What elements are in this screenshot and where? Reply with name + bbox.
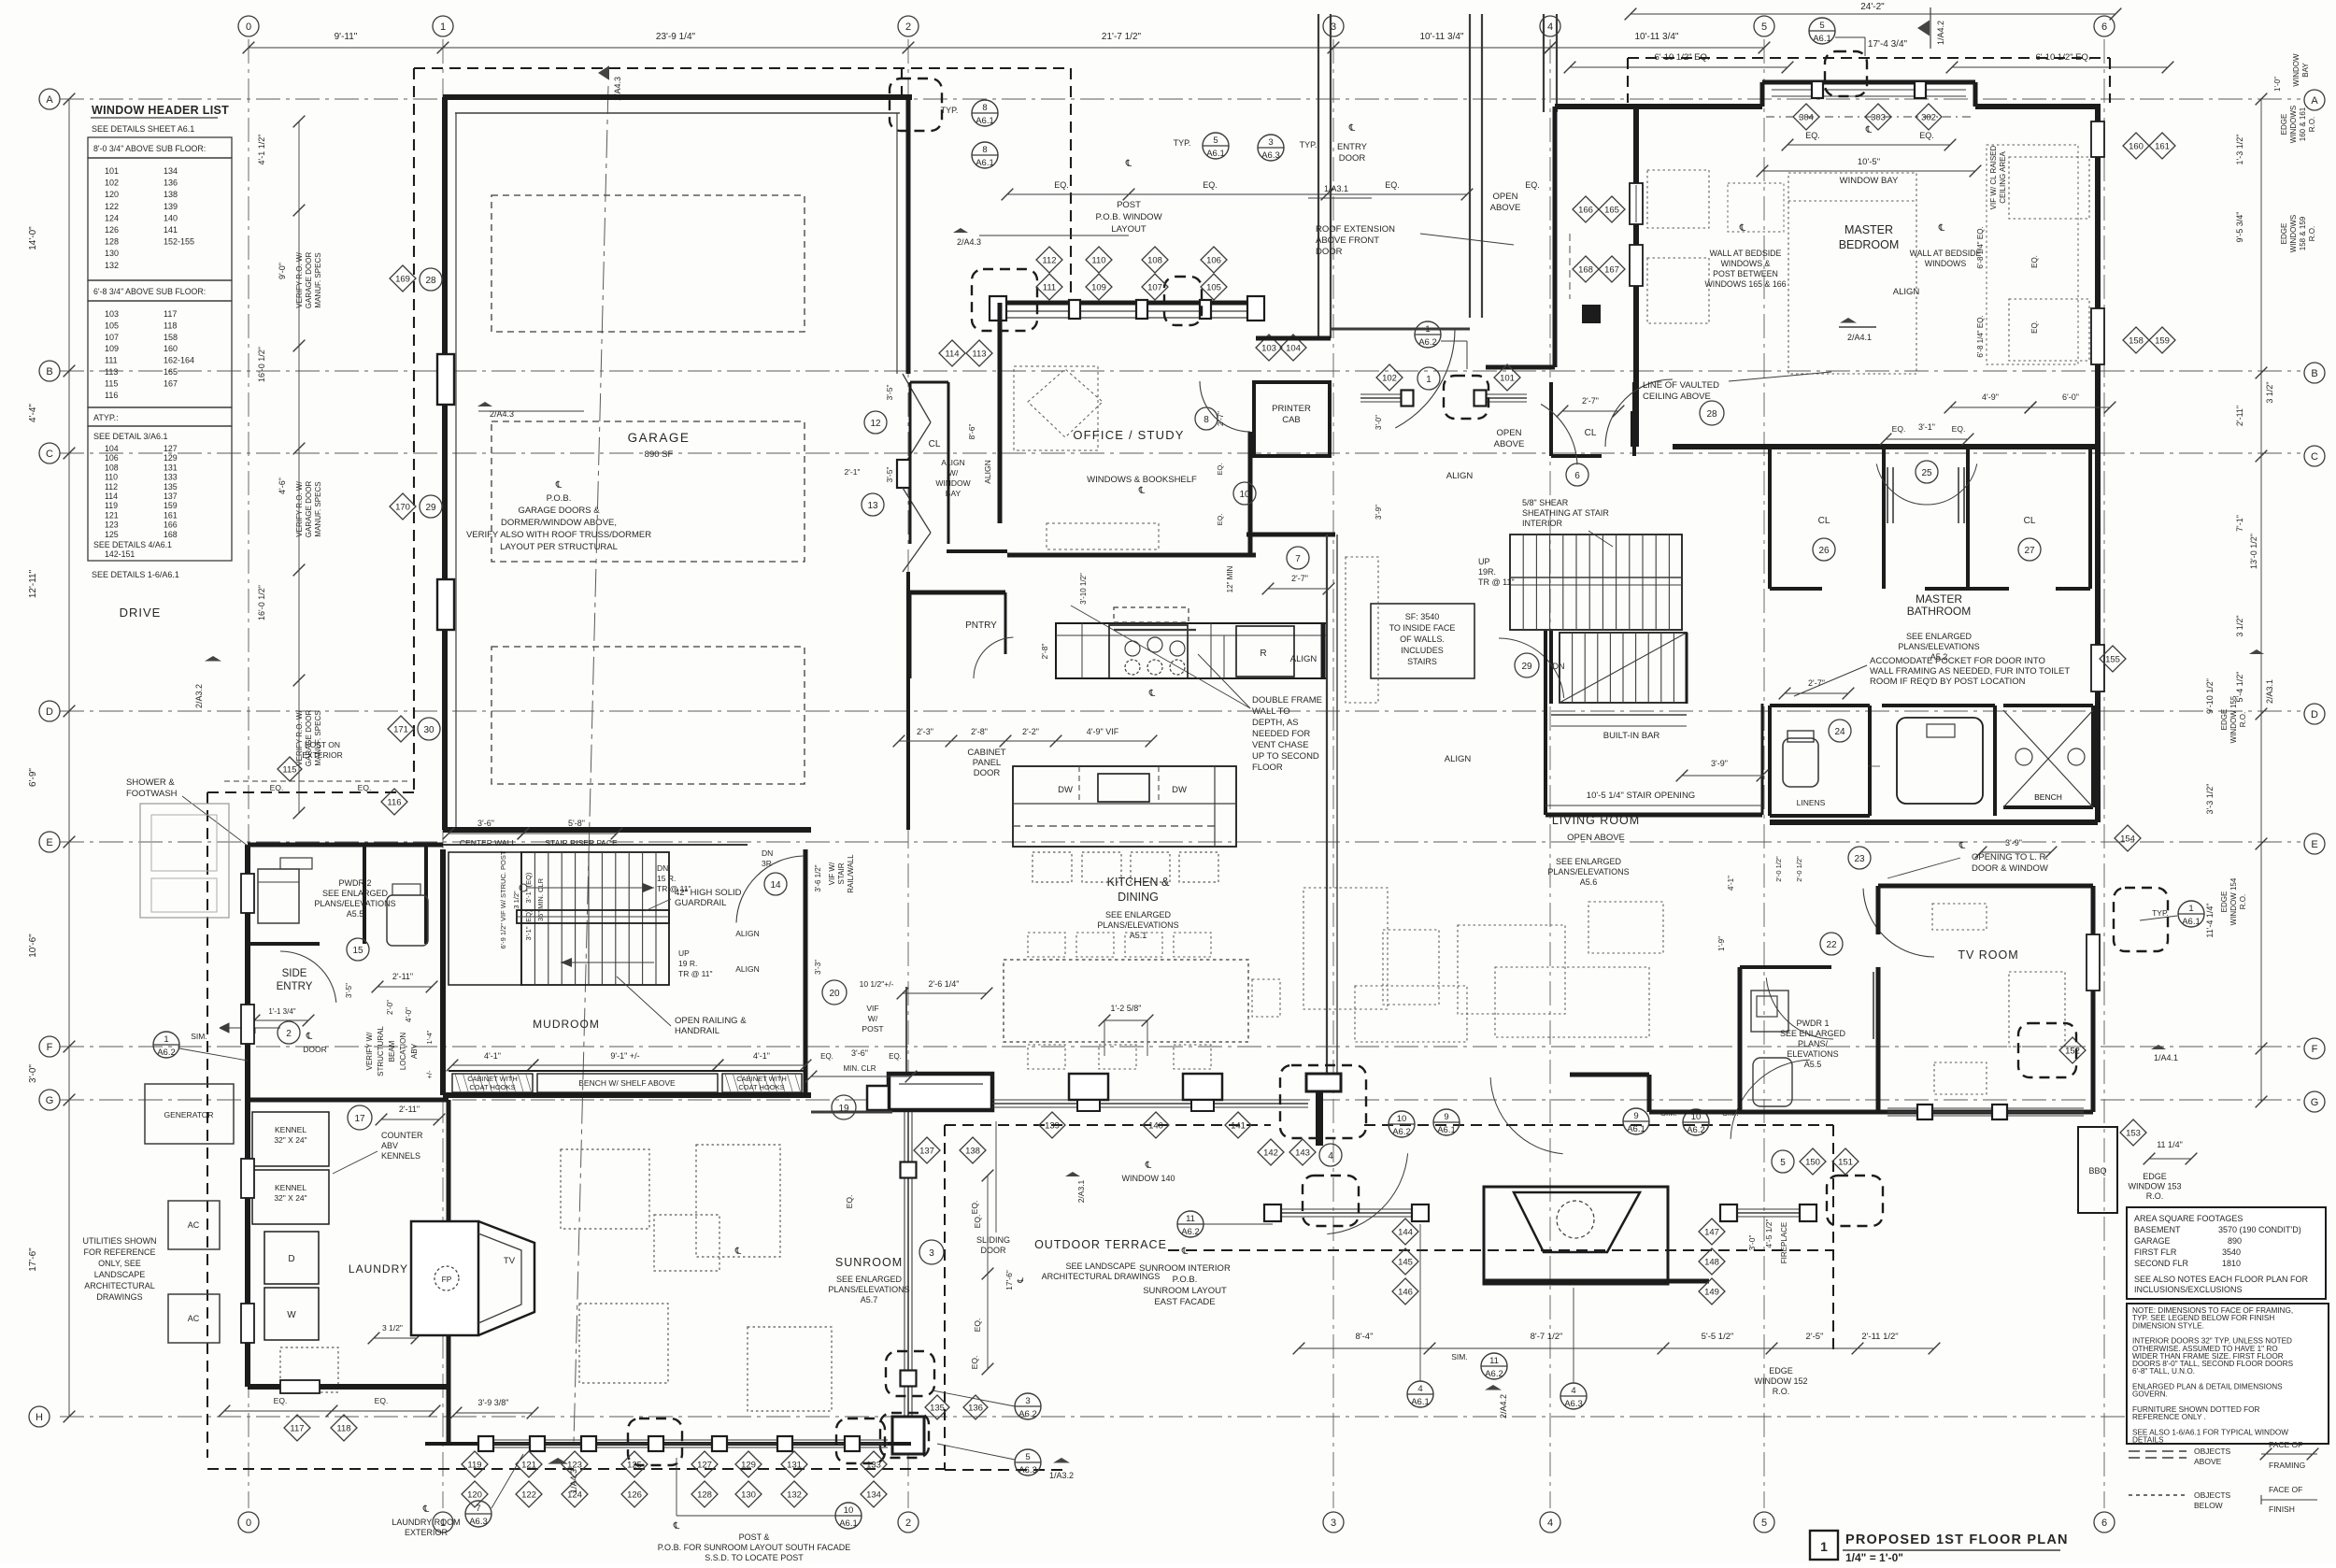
svg-text:9'-0": 9'-0" [278,263,287,279]
svg-text:EQ.: EQ. [1216,514,1224,526]
svg-text:5'-8": 5'-8" [568,819,585,828]
circles 3 and 5 A6.3 right of sunroom [919,1240,944,1264]
svg-text:123: 123 [567,1461,582,1471]
svg-text:159: 159 [164,501,178,510]
svg-text:142: 142 [1263,1148,1278,1159]
terrace ref circles [1389,1111,1415,1137]
svg-text:ELEVATIONS: ELEVATIONS [1787,1049,1838,1059]
svg-text:WINDOW 140: WINDOW 140 [1121,1174,1175,1183]
svg-text:SEE DETAIL 3/A6.1: SEE DETAIL 3/A6.1 [93,432,168,441]
svg-text:2'-0 1/2": 2'-0 1/2" [1774,856,1783,882]
svg-text:120: 120 [105,190,119,199]
svg-text:MANUF. SPECS: MANUF. SPECS [314,481,322,536]
svg-text:RAIL/WALL: RAIL/WALL [847,854,855,893]
svg-text:H: H [36,1412,43,1423]
svg-text:3'-6 1/2": 3'-6 1/2" [814,864,822,891]
marker 2/A4.3 office [953,228,968,233]
entry corridor right wall [1469,14,1471,318]
svg-text:R.O.: R.O. [2239,712,2247,727]
svg-text:SEE LANDSCAPE: SEE LANDSCAPE [1065,1262,1135,1271]
svg-text:3: 3 [1025,1396,1030,1406]
svg-text:VERIFY R.O. W/: VERIFY R.O. W/ [295,252,304,308]
svg-text:SECOND FLR: SECOND FLR [2134,1259,2189,1268]
svg-text:KENNEL: KENNEL [275,1125,306,1134]
sunroom right wall [904,1112,905,1439]
svg-text:STAIR: STAIR [837,862,846,884]
svg-text:302: 302 [1921,113,1936,123]
svg-text:BASEMENT: BASEMENT [2134,1225,2181,1234]
hall bottom wall [1486,365,1555,370]
printer cab room [1254,382,1330,456]
svg-text:R.O.: R.O. [2308,117,2316,132]
svg-text:1/A4.1: 1/A4.1 [2154,1053,2178,1062]
svg-text:WINDOWS: WINDOWS [2289,215,2298,252]
pwdr2 outer walls [248,843,443,848]
svg-text:112: 112 [1042,256,1056,266]
svg-text:DOUBLE FRAME: DOUBLE FRAME [1252,695,1322,706]
svg-text:137: 137 [164,492,178,501]
svg-text:SHOWER &: SHOWER & [126,777,175,788]
svg-text:DOOR: DOOR [1316,247,1343,257]
svg-text:5: 5 [1761,21,1767,33]
svg-text:A6.3: A6.3 [1564,1399,1583,1409]
svg-text:0: 0 [246,21,251,33]
svg-text:116: 116 [105,391,118,400]
dimension 24'-2 top right [1631,13,2115,15]
svg-text:DOOR: DOOR [1339,153,1366,164]
svg-text:SIDE: SIDE [282,968,307,979]
svg-text:1: 1 [1820,1539,1828,1554]
svg-text:PLANS/ELEVATIONS: PLANS/ELEVATIONS [1547,867,1629,877]
svg-text:4'-4": 4'-4" [28,404,38,422]
svg-text:A6.1: A6.1 [1411,1397,1430,1407]
circle 1/A6.2 SIM [153,1032,179,1058]
svg-text:CL: CL [2024,516,2036,526]
svg-text:A6.1: A6.1 [976,116,994,126]
svg-text:DIMENSION STYLE.: DIMENSION STYLE. [2132,1321,2204,1330]
svg-text:890 SF: 890 SF [645,449,674,460]
svg-text:104: 104 [105,444,119,453]
svg-text:150: 150 [1805,1158,1820,1168]
svg-text:12: 12 [870,419,881,429]
svg-text:GARAGE DOOR: GARAGE DOOR [305,481,313,538]
closet walls [1768,447,1772,589]
south wall dash bubble right [1280,1065,1366,1138]
svg-text:30: 30 [423,725,434,735]
svg-text:ABV: ABV [410,1043,419,1059]
svg-text:ALIGN: ALIGN [1446,471,1474,481]
svg-text:125: 125 [627,1461,642,1471]
left dimension column [68,99,70,1417]
double frame wall verticals [1326,535,1328,1073]
svg-text:A6.2: A6.2 [157,1048,176,1058]
marker 1/A4.2 top right [1917,21,1930,36]
terrace fireplace [1484,1187,1668,1284]
svg-text:108: 108 [1147,256,1162,266]
svg-text:2'-6 1/4": 2'-6 1/4" [929,979,960,989]
svg-text:WINDOWS: WINDOWS [2289,106,2298,143]
svg-text:EDGE: EDGE [1769,1366,1793,1376]
svg-text:COUNTER: COUNTER [381,1131,423,1140]
svg-text:SEE DETAILS SHEET A6.1: SEE DETAILS SHEET A6.1 [92,124,194,134]
svg-text:D: D [2311,709,2318,720]
svg-text:BUILT-IN BAR: BUILT-IN BAR [1603,731,1660,741]
hall top wall [1555,104,1636,109]
grid bubbles left [39,89,60,109]
svg-text:121: 121 [521,1461,536,1471]
svg-text:AC: AC [188,1314,200,1323]
svg-text:ALIGN: ALIGN [1445,754,1472,764]
svg-text:304: 304 [1799,113,1814,123]
svg-text:32" X 24": 32" X 24" [274,1135,306,1145]
garage left wall [442,97,448,830]
window header list box 1 [88,137,232,158]
svg-text:SEE ENLARGED: SEE ENLARGED [1105,910,1172,919]
svg-text:PANEL: PANEL [973,758,1001,768]
svg-text:4'-1": 4'-1" [753,1051,770,1061]
svg-text:SEE ENLARGED: SEE ENLARGED [1556,857,1622,866]
entry door [1331,328,1470,331]
marker 2/A4.1 [1840,318,1857,323]
svg-text:2'-11": 2'-11" [399,1105,420,1114]
hall west wall [1553,107,1558,367]
svg-text:OBJECTS: OBJECTS [2194,1490,2231,1500]
svg-text:2'-0": 2'-0" [386,1000,394,1015]
grid bubbles right [2304,90,2325,110]
svg-text:FRAMING: FRAMING [2269,1461,2305,1470]
svg-text:DETAILS: DETAILS [2132,1436,2164,1445]
marker 1/A4.1 right edge [2151,1045,2166,1049]
svg-text:110: 110 [105,473,118,482]
svg-text:1: 1 [440,21,446,33]
svg-text:ABOVE: ABOVE [2194,1457,2222,1466]
svg-text:5/8" SHEAR: 5/8" SHEAR [1522,498,1569,507]
garage door dashed rect 1 [491,195,805,332]
svg-text:EQ.: EQ. [2030,255,2039,268]
svg-text:890: 890 [2228,1236,2242,1246]
garage right wall lower [906,572,910,830]
svg-text:℄: ℄ [306,1032,313,1042]
svg-text:STRUCTURAL: STRUCTURAL [377,1026,385,1076]
right dimension column [2260,99,2262,1102]
svg-text:127: 127 [164,444,178,453]
svg-text:DORMER/WINDOW ABOVE,: DORMER/WINDOW ABOVE, [501,518,617,528]
svg-text:165: 165 [164,367,178,377]
svg-text:6'-9 1/2" VIF W/ STRUC. POST: 6'-9 1/2" VIF W/ STRUC. POST [499,850,507,948]
office window dash bubbles [972,269,1037,331]
title block [1810,1531,1838,1560]
svg-text:ENTRY: ENTRY [277,981,313,992]
svg-text:121: 121 [105,510,119,520]
svg-text:5'-5 1/2": 5'-5 1/2" [1702,1332,1734,1342]
svg-text:FIRST FLR: FIRST FLR [2134,1247,2177,1257]
svg-text:137: 137 [919,1147,934,1157]
master right wall [2095,107,2101,447]
svg-text:DOOR: DOOR [303,1045,327,1054]
svg-text:2: 2 [905,1518,911,1529]
bath tub [1882,704,1995,707]
svg-text:132: 132 [105,261,119,270]
svg-text:130: 130 [105,249,119,258]
svg-text:10'-6": 10'-6" [28,934,38,958]
svg-text:161: 161 [2155,142,2170,152]
svg-text:A6.3: A6.3 [1018,1465,1037,1475]
svg-text:119: 119 [467,1461,481,1471]
svg-text:CENTER WALL: CENTER WALL [460,838,516,848]
svg-text:10: 10 [1397,1114,1407,1124]
svg-text:3'-0": 3'-0" [1375,415,1383,430]
svg-text:116: 116 [387,798,401,808]
svg-text:+/-: +/- [425,1070,434,1078]
svg-text:140: 140 [1148,1121,1163,1132]
svg-text:AC: AC [188,1220,200,1230]
svg-text:POST ON: POST ON [305,740,340,749]
svg-text:10 1/2"+/-: 10 1/2"+/- [860,979,894,989]
circle 20 kitchen [822,980,847,1005]
pantry room [909,591,1005,595]
hall closet CL [1549,382,1553,456]
svg-text:127: 127 [697,1461,712,1471]
terrace diamonds right [1699,1219,1725,1245]
circle 28 master door [1700,401,1724,425]
svg-text:152-155: 152-155 [164,237,194,247]
svg-text:2'-11": 2'-11" [2235,406,2244,426]
grid bubbles bottom [238,1512,259,1532]
svg-text:SEE DETAILS 1-6/A6.1: SEE DETAILS 1-6/A6.1 [92,570,179,579]
svg-text:20: 20 [829,989,840,999]
svg-text:WALL TO: WALL TO [1252,706,1290,717]
svg-text:STAIR RISER FACE: STAIR RISER FACE [545,838,618,848]
svg-text:161: 161 [164,510,178,520]
upper stair flight [1510,535,1682,630]
svg-text:SUNROOM: SUNROOM [835,1256,903,1269]
svg-text:168: 168 [164,530,178,539]
svg-text:PLANS/ELEVATIONS: PLANS/ELEVATIONS [314,899,395,908]
south wall left block [889,1074,992,1110]
svg-text:R.O.: R.O. [2239,894,2247,909]
svg-text:VERIFY ALSO WITH ROOF TRUSS/DO: VERIFY ALSO WITH ROOF TRUSS/DORMER [466,530,651,540]
svg-text:EQ.: EQ. [1952,424,1966,434]
svg-text:15 R.: 15 R. [657,874,676,883]
svg-text:3'-5": 3'-5" [345,983,353,998]
bottom window diamonds row [462,1451,488,1477]
svg-text:9: 9 [1633,1111,1638,1121]
svg-text:3'-9": 3'-9" [1375,505,1383,520]
svg-text:126: 126 [105,225,119,235]
svg-text:2'-11 1/2": 2'-11 1/2" [1861,1332,1898,1342]
svg-text:A6.1: A6.1 [1627,1124,1645,1134]
terrace fireplace wing wall right [1729,1208,1808,1210]
pwdr2 fixtures [258,869,299,923]
svg-text:8: 8 [982,103,987,113]
svg-text:107: 107 [105,333,119,342]
svg-text:POST &: POST & [739,1532,770,1542]
svg-text:℄: ℄ [1145,1161,1152,1171]
svg-text:28: 28 [1706,409,1717,420]
svg-text:EAST FACADE: EAST FACADE [1154,1297,1215,1307]
svg-text:27: 27 [2024,546,2035,556]
svg-text:R.O.: R.O. [2146,1191,2164,1201]
svg-text:26: 26 [1818,546,1830,556]
svg-text:5: 5 [1761,1518,1767,1529]
svg-text:W: W [287,1310,296,1320]
svg-text:BAY: BAY [946,489,961,498]
svg-text:BEAM: BEAM [388,1040,396,1062]
svg-text:113: 113 [972,349,986,360]
tv room dotted furniture [1932,904,1987,930]
svg-text:POST BETWEEN: POST BETWEEN [1713,269,1778,278]
sunroom bottom wall [425,1442,911,1446]
office right wall [1248,432,1253,555]
svg-text:EQ.: EQ. [1216,463,1224,476]
svg-text:104: 104 [1286,344,1301,354]
svg-text:ALIGN: ALIGN [735,929,760,938]
svg-text:3 1/2": 3 1/2" [2235,615,2244,636]
svg-text:22: 22 [1826,940,1837,950]
circle 15 [347,938,369,961]
svg-text:115: 115 [105,378,118,388]
svg-text:EQ.: EQ. [270,783,284,792]
svg-text:INCLUDES: INCLUDES [1401,646,1444,655]
svg-text:3'-3 1/2": 3'-3 1/2" [2205,784,2215,815]
svg-text:1810: 1810 [2222,1259,2241,1268]
svg-text:3: 3 [1331,1518,1336,1529]
svg-text:2'-7": 2'-7" [1291,574,1308,583]
svg-text:168: 168 [1578,265,1593,276]
svg-text:GARAGE: GARAGE [2134,1236,2171,1246]
svg-text:DOOR & WINDOW: DOOR & WINDOW [1972,863,2048,874]
svg-text:2/A3.1: 2/A3.1 [1076,1179,1086,1203]
chase dotted rect [1346,557,1378,703]
svg-text:133: 133 [866,1461,881,1471]
terrace fireplace wing wall left [1280,1208,1420,1210]
svg-text:17'-6": 17'-6" [28,1247,38,1272]
svg-text:OFFICE / STUDY: OFFICE / STUDY [1073,428,1184,442]
svg-text:167: 167 [164,378,178,388]
svg-text:139: 139 [1045,1121,1060,1132]
svg-text:1/A3.1: 1/A3.1 [1324,184,1348,193]
svg-text:3'-1" (EQ): 3'-1" (EQ) [524,872,533,903]
svg-text:3'-5": 3'-5" [885,467,894,483]
svg-text:EQ.: EQ. [1525,180,1540,190]
svg-text:WINDOW 153: WINDOW 153 [2128,1182,2181,1191]
door 6 circle [1566,463,1588,486]
svg-text:FOOTWASH: FOOTWASH [126,789,178,799]
svg-text:CABINET WITH: CABINET WITH [467,1075,518,1083]
svg-text:SEE DETAILS 4/A6.1: SEE DETAILS 4/A6.1 [93,540,172,549]
svg-text:A6.1: A6.1 [976,158,994,168]
svg-text:152: 152 [2065,1047,2080,1057]
svg-text:141: 141 [164,225,178,235]
svg-text:8'-6": 8'-6" [967,424,976,440]
marker 2/A4.3 garage [477,402,492,406]
mudroom stair railing [517,910,669,923]
svg-text:R.O.: R.O. [1773,1387,1790,1396]
circle 11/A6.2 terrace [1177,1211,1204,1237]
svg-text:G: G [46,1095,54,1106]
svg-text:6: 6 [2101,21,2107,33]
svg-text:A6.1: A6.1 [839,1518,858,1529]
svg-text:128: 128 [105,237,119,247]
mudroom right wall [804,849,808,1095]
svg-text:A6.2: A6.2 [1485,1369,1503,1379]
svg-text:A6.3: A6.3 [469,1517,488,1527]
svg-text:114: 114 [105,492,118,501]
svg-text:24: 24 [1834,727,1845,737]
svg-text:1'-4": 1'-4" [425,1030,434,1044]
svg-text:C: C [2311,451,2318,463]
svg-text:10'-5": 10'-5" [1858,157,1880,167]
svg-text:109: 109 [1091,283,1106,293]
svg-text:7: 7 [1295,554,1301,564]
svg-text:FACE OF: FACE OF [2269,1440,2302,1449]
svg-text:ABOVE FRONT: ABOVE FRONT [1316,235,1379,246]
bottom ref circles [465,1501,491,1527]
svg-text:℄: ℄ [1938,223,1945,234]
marker 2/A3.1 terrace [1065,1172,1080,1176]
svg-text:134: 134 [164,166,178,176]
svg-text:129: 129 [741,1461,756,1471]
svg-text:1'-3 1/2": 1'-3 1/2" [2235,135,2244,165]
svg-text:℄: ℄ [1348,123,1356,134]
bath right wall [2095,447,2101,822]
svg-text:3'-0": 3'-0" [28,1064,38,1083]
svg-text:120: 120 [467,1490,482,1501]
svg-text:A6.2: A6.2 [1181,1227,1200,1237]
svg-text:102: 102 [1382,374,1397,384]
island stools dotted [1033,852,1072,882]
svg-text:128: 128 [697,1490,712,1501]
svg-text:ARCHITECTURAL: ARCHITECTURAL [84,1281,155,1290]
svg-text:INTERIOR: INTERIOR [1522,519,1563,528]
garage door dashed rect 2 [491,421,805,562]
svg-text:12" MIN: 12" MIN [1226,565,1234,592]
svg-text:14: 14 [770,880,781,891]
svg-text:EQ.: EQ. [2030,321,2039,334]
svg-text:P.O.B.: P.O.B. [1173,1275,1198,1285]
master top wall left segment [1633,104,1762,109]
svg-text:113: 113 [105,367,118,377]
svg-text:MUDROOM: MUDROOM [533,1018,600,1031]
svg-text:165: 165 [1604,206,1619,216]
area square footages box [2127,1207,2326,1299]
svg-text:118: 118 [164,321,177,330]
svg-text:OUTDOOR TERRACE: OUTDOOR TERRACE [1034,1238,1167,1251]
svg-text:1'-0": 1'-0" [2273,77,2282,92]
laundry dotted fixture [280,1347,338,1392]
pwdr2 window slots [241,874,254,913]
window header list box 2 [88,280,232,301]
SF note box [1371,604,1474,678]
svg-text:WINDOW BAY: WINDOW BAY [1840,176,1899,186]
svg-text:OPEN: OPEN [1497,428,1522,438]
circle 13 garage bay [862,493,884,516]
svg-text:EQ.: EQ. [970,1356,979,1370]
office bottom step [947,549,1007,553]
legend bottom right [2129,1450,2186,1452]
svg-text:℄: ℄ [1138,486,1146,496]
svg-text:EQ.: EQ. [1203,180,1218,190]
terrace bottom circles [1407,1381,1433,1407]
svg-text:1: 1 [1425,324,1430,335]
svg-text:P.O.B. FOR SUNROOM LAYOUT SO: P.O.B. FOR SUNROOM LAYOUT SOUTH FACADE [658,1543,851,1552]
svg-text:A6.1: A6.1 [1813,34,1831,44]
svg-text:8'-7 1/2": 8'-7 1/2" [1531,1332,1563,1342]
svg-text:WINDOW 152: WINDOW 152 [1754,1376,1807,1386]
svg-text:TYP.: TYP. [1174,138,1191,148]
svg-text:8: 8 [1204,415,1209,425]
svg-text:ABOVE: ABOVE [1494,439,1525,449]
